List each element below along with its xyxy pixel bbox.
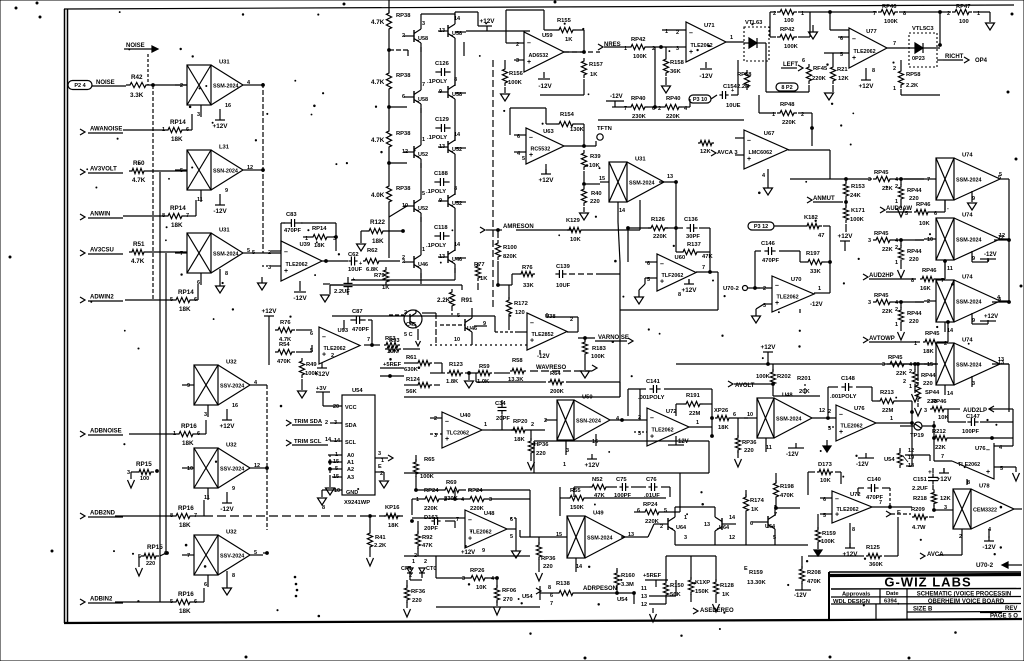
svg-text:22K: 22K bbox=[896, 371, 907, 377]
svg-text:R213: R213 bbox=[880, 390, 895, 396]
svg-text:2: 2 bbox=[927, 299, 930, 305]
svg-text:+12V: +12V bbox=[539, 177, 555, 184]
svg-text:A3: A3 bbox=[347, 475, 354, 481]
svg-text:NOISE: NOISE bbox=[96, 80, 115, 86]
svg-text:R197: R197 bbox=[806, 251, 820, 257]
svg-text:VTL63: VTL63 bbox=[745, 20, 763, 26]
svg-text:U32: U32 bbox=[226, 360, 237, 366]
svg-text:11: 11 bbox=[947, 266, 953, 272]
svg-text:U76: U76 bbox=[854, 406, 865, 412]
svg-text:U70-2: U70-2 bbox=[976, 562, 994, 569]
svg-text:3.3M: 3.3M bbox=[621, 582, 634, 588]
svg-text:R122: R122 bbox=[370, 219, 386, 226]
svg-text:2: 2 bbox=[660, 524, 663, 530]
svg-text:R91: R91 bbox=[461, 297, 473, 304]
svg-text:-12V: -12V bbox=[699, 73, 713, 80]
svg-text:X9241WP: X9241WP bbox=[344, 500, 370, 506]
svg-text:RP16: RP16 bbox=[181, 423, 197, 430]
svg-text:8: 8 bbox=[232, 573, 235, 579]
svg-text:SSM-2024: SSM-2024 bbox=[956, 300, 981, 306]
svg-text:22K: 22K bbox=[882, 309, 893, 315]
svg-text:1: 1 bbox=[422, 247, 425, 253]
svg-text:3: 3 bbox=[204, 412, 207, 418]
svg-text:C141: C141 bbox=[646, 379, 661, 385]
svg-text:R159: R159 bbox=[749, 570, 764, 576]
svg-text:RF36: RF36 bbox=[411, 589, 426, 595]
svg-text:RP14: RP14 bbox=[170, 119, 186, 126]
svg-text:A1: A1 bbox=[347, 460, 354, 466]
svg-text:SSV-2024: SSV-2024 bbox=[220, 554, 244, 560]
svg-text:7: 7 bbox=[367, 337, 370, 343]
svg-text:VTL5C3: VTL5C3 bbox=[912, 26, 934, 32]
svg-text:OBERHEIM VOICE BOARD: OBERHEIM VOICE BOARD bbox=[928, 599, 1005, 605]
svg-text:220K: 220K bbox=[653, 234, 668, 240]
svg-text:47K: 47K bbox=[702, 254, 713, 260]
svg-text:RICHT: RICHT bbox=[945, 54, 964, 60]
svg-text:12K: 12K bbox=[940, 496, 951, 502]
svg-text:10K: 10K bbox=[820, 478, 831, 484]
svg-text:AMRESON: AMRESON bbox=[503, 224, 534, 230]
svg-text:U74: U74 bbox=[962, 153, 973, 159]
svg-text:RP45: RP45 bbox=[874, 293, 889, 299]
svg-text:D173: D173 bbox=[818, 462, 833, 468]
svg-text:2: 2 bbox=[763, 286, 766, 292]
svg-text:RP45: RP45 bbox=[888, 355, 903, 361]
svg-text:2: 2 bbox=[544, 418, 547, 424]
svg-text:+: + bbox=[731, 88, 734, 94]
svg-text:820K: 820K bbox=[503, 254, 518, 260]
svg-text:2: 2 bbox=[434, 416, 437, 422]
svg-text:RP24: RP24 bbox=[643, 502, 658, 508]
svg-text:U46: U46 bbox=[467, 326, 477, 332]
svg-text:+: + bbox=[747, 156, 751, 163]
svg-text:–: – bbox=[284, 249, 288, 256]
svg-text:220: 220 bbox=[412, 598, 422, 604]
svg-text:RP36: RP36 bbox=[541, 556, 556, 562]
svg-text:100K: 100K bbox=[821, 539, 836, 545]
svg-text:16: 16 bbox=[232, 403, 238, 409]
svg-text:.1POLY: .1POLY bbox=[426, 243, 446, 249]
svg-text:U63: U63 bbox=[543, 129, 554, 135]
svg-text:U54: U54 bbox=[522, 594, 533, 600]
svg-text:RP14: RP14 bbox=[178, 289, 194, 296]
svg-text:4.7K: 4.7K bbox=[371, 79, 385, 86]
svg-text:RP48: RP48 bbox=[780, 102, 795, 108]
svg-text:+: + bbox=[284, 268, 288, 275]
svg-text:18K: 18K bbox=[314, 243, 325, 249]
svg-text:16K: 16K bbox=[920, 286, 931, 292]
svg-text:10K: 10K bbox=[387, 349, 398, 355]
svg-text:GND: GND bbox=[346, 490, 358, 496]
svg-text:100: 100 bbox=[140, 476, 149, 482]
svg-text:–: – bbox=[852, 36, 856, 43]
svg-text:+: + bbox=[322, 352, 326, 359]
svg-text:ANWIN: ANWIN bbox=[90, 212, 110, 218]
svg-text:220K: 220K bbox=[666, 114, 681, 120]
svg-text:RP15: RP15 bbox=[147, 544, 163, 551]
svg-text:12K: 12K bbox=[700, 149, 711, 155]
svg-text:VARNOISE: VARNOISE bbox=[598, 335, 629, 341]
svg-text:20PF: 20PF bbox=[496, 416, 510, 422]
svg-text:5: 5 bbox=[252, 250, 255, 256]
svg-text:1: 1 bbox=[563, 462, 566, 468]
svg-text:6: 6 bbox=[802, 58, 805, 64]
svg-text:RP44: RP44 bbox=[907, 249, 922, 255]
svg-text:TRIM SCL: TRIM SCL bbox=[294, 439, 322, 445]
svg-text:U31: U31 bbox=[219, 228, 230, 234]
svg-text:RP46: RP46 bbox=[932, 399, 947, 405]
svg-text:RP45: RP45 bbox=[925, 331, 940, 337]
svg-text:-12V: -12V bbox=[794, 593, 807, 599]
svg-text:RP24: RP24 bbox=[424, 488, 439, 494]
svg-text:2: 2 bbox=[180, 83, 183, 89]
svg-text:10UF: 10UF bbox=[348, 267, 363, 273]
svg-text:R191: R191 bbox=[686, 393, 701, 399]
svg-text:R39: R39 bbox=[590, 154, 601, 160]
svg-text:100K: 100K bbox=[884, 19, 899, 25]
svg-text:7: 7 bbox=[879, 500, 882, 506]
svg-text:+12V: +12V bbox=[984, 314, 998, 320]
svg-text:C188: C188 bbox=[434, 171, 449, 177]
svg-text:RP40: RP40 bbox=[666, 96, 681, 102]
svg-text:–: – bbox=[468, 517, 472, 524]
svg-text:OP4: OP4 bbox=[975, 58, 988, 64]
svg-text:C76: C76 bbox=[646, 477, 657, 483]
svg-text:U54: U54 bbox=[352, 388, 363, 394]
svg-text:+12V: +12V bbox=[213, 123, 229, 130]
svg-text:U67: U67 bbox=[764, 131, 775, 137]
svg-text:6: 6 bbox=[637, 508, 640, 514]
svg-text:+: + bbox=[928, 469, 932, 476]
svg-text:3: 3 bbox=[127, 470, 130, 476]
svg-text:10UE: 10UE bbox=[726, 103, 741, 109]
svg-text:–: – bbox=[322, 334, 326, 341]
svg-text:C146: C146 bbox=[761, 241, 776, 247]
svg-text:R209: R209 bbox=[911, 507, 926, 513]
svg-text:SSM-2024: SSM-2024 bbox=[213, 252, 238, 258]
svg-text:2: 2 bbox=[444, 497, 447, 503]
svg-text:20PF: 20PF bbox=[424, 526, 438, 532]
svg-text:1: 1 bbox=[412, 559, 415, 565]
svg-text:TLC2062: TLC2062 bbox=[447, 430, 469, 436]
svg-text:18K: 18K bbox=[372, 238, 384, 245]
svg-text:2: 2 bbox=[404, 310, 407, 316]
svg-text:U58: U58 bbox=[418, 97, 428, 103]
svg-text:470PF: 470PF bbox=[762, 258, 780, 264]
svg-text:9: 9 bbox=[232, 486, 235, 492]
svg-text:U46: U46 bbox=[418, 262, 428, 268]
svg-text:1: 1 bbox=[818, 286, 821, 292]
svg-text:AUD2HP: AUD2HP bbox=[869, 273, 894, 279]
svg-text:220: 220 bbox=[590, 199, 600, 205]
svg-text:R51: R51 bbox=[133, 241, 145, 248]
svg-text:U31: U31 bbox=[635, 157, 646, 163]
svg-text:7: 7 bbox=[702, 265, 705, 271]
svg-text:R138: R138 bbox=[556, 581, 571, 587]
svg-text:R156: R156 bbox=[509, 71, 524, 77]
svg-text:C62: C62 bbox=[348, 252, 359, 258]
svg-text:6394: 6394 bbox=[884, 599, 898, 605]
svg-text:U32: U32 bbox=[226, 530, 237, 536]
svg-text:220: 220 bbox=[744, 448, 754, 454]
svg-text:U60: U60 bbox=[675, 255, 686, 261]
svg-text:G-WIZ LABS: G-WIZ LABS bbox=[884, 575, 971, 590]
svg-text:1: 1 bbox=[895, 199, 898, 205]
svg-text:220: 220 bbox=[909, 319, 919, 325]
svg-text:24K: 24K bbox=[850, 193, 861, 199]
svg-text:RP46: RP46 bbox=[882, 4, 897, 10]
svg-text:U54: U54 bbox=[884, 457, 895, 463]
svg-text:TLE2852: TLE2852 bbox=[532, 332, 554, 338]
svg-text:11: 11 bbox=[197, 197, 203, 203]
svg-text:100K: 100K bbox=[850, 217, 865, 223]
svg-text:XP26: XP26 bbox=[714, 408, 729, 414]
svg-text:SCHEMATIC (VOICE PROCESSIN: SCHEMATIC (VOICE PROCESSIN bbox=[917, 592, 1012, 598]
svg-text:R69: R69 bbox=[446, 480, 457, 486]
svg-text:-12V: -12V bbox=[984, 252, 997, 258]
svg-text:U54: U54 bbox=[617, 597, 628, 603]
svg-text:–: – bbox=[986, 447, 990, 454]
svg-text:220K: 220K bbox=[470, 506, 485, 512]
svg-text:R76: R76 bbox=[522, 265, 533, 271]
svg-text:TLE2062: TLE2062 bbox=[777, 294, 799, 300]
svg-text:33K: 33K bbox=[523, 283, 534, 289]
svg-text:U76: U76 bbox=[975, 446, 986, 452]
svg-text:1: 1 bbox=[895, 322, 898, 328]
svg-text:CT0: CT0 bbox=[426, 566, 436, 572]
svg-text:7: 7 bbox=[187, 553, 190, 559]
svg-text:2: 2 bbox=[331, 353, 334, 359]
svg-text:AVCA 3: AVCA 3 bbox=[717, 150, 738, 156]
svg-text:1: 1 bbox=[909, 384, 912, 390]
svg-text:SSM-2024: SSM-2024 bbox=[213, 84, 238, 90]
svg-text:1: 1 bbox=[416, 497, 419, 503]
svg-text:R208: R208 bbox=[807, 570, 822, 576]
svg-text:3: 3 bbox=[378, 451, 381, 457]
svg-text:RP46: RP46 bbox=[916, 202, 931, 208]
svg-text:+: + bbox=[650, 433, 654, 440]
svg-text:100K: 100K bbox=[756, 374, 771, 380]
svg-text:5: 5 bbox=[905, 211, 908, 217]
svg-text:4.0K: 4.0K bbox=[371, 192, 385, 199]
svg-text:3: 3 bbox=[882, 362, 885, 368]
svg-text:10: 10 bbox=[747, 412, 753, 418]
svg-text:+12V: +12V bbox=[843, 551, 859, 558]
svg-text:P3 10: P3 10 bbox=[693, 97, 707, 103]
svg-text:13: 13 bbox=[667, 174, 673, 180]
svg-text:RP44: RP44 bbox=[907, 311, 922, 317]
svg-text:2.2K: 2.2K bbox=[374, 543, 387, 549]
svg-text:47K: 47K bbox=[422, 543, 433, 549]
svg-text:RP46: RP46 bbox=[922, 268, 937, 274]
svg-text:18K: 18K bbox=[179, 522, 191, 529]
svg-text:2.2K: 2.2K bbox=[906, 83, 919, 89]
svg-text:10: 10 bbox=[927, 237, 933, 243]
svg-text:-12V: -12V bbox=[537, 354, 550, 360]
svg-text:14: 14 bbox=[325, 437, 332, 443]
svg-text:U93: U93 bbox=[337, 328, 348, 334]
svg-text:SSN-2024: SSN-2024 bbox=[576, 419, 601, 425]
svg-text:R59: R59 bbox=[479, 364, 490, 370]
svg-text:SP44: SP44 bbox=[925, 390, 940, 396]
svg-text:1: 1 bbox=[893, 86, 896, 92]
svg-text:U40: U40 bbox=[460, 413, 471, 419]
svg-text:100K: 100K bbox=[508, 80, 523, 86]
svg-text:3.3K: 3.3K bbox=[130, 92, 144, 99]
svg-text:R123: R123 bbox=[449, 362, 464, 368]
svg-text:Date: Date bbox=[886, 591, 899, 597]
svg-text:+12V: +12V bbox=[220, 423, 236, 430]
svg-text:220: 220 bbox=[909, 257, 919, 263]
svg-text:R198: R198 bbox=[780, 484, 795, 490]
svg-text:1: 1 bbox=[422, 137, 425, 143]
svg-text:RP20: RP20 bbox=[513, 419, 528, 425]
svg-text:+: + bbox=[529, 152, 533, 159]
svg-text:SSN-2024: SSN-2024 bbox=[213, 169, 238, 175]
svg-text:RP58: RP58 bbox=[737, 72, 752, 78]
svg-text:+5REF: +5REF bbox=[643, 573, 662, 579]
svg-text:RP14: RP14 bbox=[170, 205, 186, 212]
svg-text:22M: 22M bbox=[689, 411, 700, 417]
svg-text:E: E bbox=[897, 510, 901, 516]
svg-text:1: 1 bbox=[730, 35, 733, 41]
svg-text:RP45: RP45 bbox=[874, 170, 889, 176]
svg-text:ADB2ND: ADB2ND bbox=[90, 511, 116, 517]
svg-text:+: + bbox=[352, 277, 355, 283]
svg-text:100K: 100K bbox=[784, 44, 799, 50]
svg-text:4.7K: 4.7K bbox=[131, 258, 145, 265]
svg-text:R183: R183 bbox=[592, 346, 607, 352]
svg-text:U50: U50 bbox=[582, 395, 593, 401]
svg-text:10: 10 bbox=[454, 337, 460, 343]
svg-text:R174: R174 bbox=[750, 498, 765, 504]
svg-text:-12V: -12V bbox=[676, 439, 689, 445]
svg-text:2: 2 bbox=[268, 250, 271, 256]
svg-text:14: 14 bbox=[729, 515, 736, 521]
svg-text:–: – bbox=[835, 496, 839, 503]
svg-text:TLE2062: TLE2062 bbox=[324, 346, 346, 352]
svg-text:2: 2 bbox=[903, 379, 906, 385]
svg-text:+: + bbox=[852, 55, 856, 62]
svg-text:360K: 360K bbox=[869, 562, 884, 568]
svg-text:2: 2 bbox=[893, 66, 896, 72]
svg-text:–: – bbox=[650, 415, 654, 422]
svg-text:RP38: RP38 bbox=[396, 186, 411, 192]
svg-text:ADBIN2: ADBIN2 bbox=[90, 597, 113, 603]
svg-text:100: 100 bbox=[959, 19, 969, 25]
svg-text:+: + bbox=[359, 261, 362, 267]
svg-text:TLE2062: TLE2062 bbox=[470, 530, 492, 536]
svg-text:–: – bbox=[530, 320, 534, 327]
svg-text:10K: 10K bbox=[570, 237, 581, 243]
svg-text:8: 8 bbox=[548, 585, 551, 591]
svg-text:.1POLY: .1POLY bbox=[427, 79, 447, 85]
svg-text:-12V: -12V bbox=[538, 83, 552, 90]
svg-text:13: 13 bbox=[704, 522, 710, 528]
svg-text:13: 13 bbox=[641, 594, 647, 600]
svg-text:18K: 18K bbox=[171, 222, 183, 229]
svg-text:TLE2062: TLE2062 bbox=[691, 43, 713, 49]
svg-text:C140: C140 bbox=[867, 477, 881, 483]
svg-text:R154: R154 bbox=[560, 112, 575, 118]
svg-text:R61: R61 bbox=[406, 355, 417, 361]
svg-text:RP16: RP16 bbox=[178, 505, 194, 512]
svg-text:12K: 12K bbox=[838, 76, 849, 82]
svg-text:P3 12: P3 12 bbox=[754, 224, 768, 230]
svg-text:11: 11 bbox=[766, 445, 772, 451]
svg-text:220: 220 bbox=[146, 561, 155, 567]
svg-text:3: 3 bbox=[422, 21, 425, 27]
svg-text:100PF: 100PF bbox=[962, 429, 980, 435]
svg-text:LMC6062: LMC6062 bbox=[749, 150, 773, 156]
svg-text:150K: 150K bbox=[695, 589, 710, 595]
svg-text:C87: C87 bbox=[352, 309, 363, 315]
svg-text:R54: R54 bbox=[279, 342, 290, 348]
svg-text:10: 10 bbox=[187, 466, 193, 472]
svg-text:7: 7 bbox=[180, 251, 183, 257]
svg-text:10K: 10K bbox=[919, 221, 930, 227]
svg-text:RP24: RP24 bbox=[468, 488, 483, 494]
svg-text:R76: R76 bbox=[280, 320, 291, 326]
svg-text:14: 14 bbox=[576, 564, 583, 570]
svg-text:3: 3 bbox=[684, 535, 687, 541]
svg-text:–: – bbox=[689, 30, 693, 37]
svg-text:8: 8 bbox=[872, 68, 875, 74]
svg-text:22M: 22M bbox=[882, 408, 893, 414]
svg-text:1K: 1K bbox=[382, 285, 390, 291]
svg-text:L31: L31 bbox=[219, 145, 230, 151]
svg-text:U78: U78 bbox=[979, 484, 990, 490]
svg-text:470PF: 470PF bbox=[352, 327, 370, 333]
svg-text:R21: R21 bbox=[837, 67, 848, 73]
svg-text:SSM-2024: SSM-2024 bbox=[956, 178, 981, 184]
svg-text:SSM-2024: SSM-2024 bbox=[587, 536, 612, 542]
svg-text:R79: R79 bbox=[374, 273, 385, 279]
svg-text:2: 2 bbox=[325, 420, 328, 426]
svg-text:630K: 630K bbox=[404, 367, 419, 373]
svg-text:6: 6 bbox=[550, 593, 553, 599]
svg-text:100K: 100K bbox=[420, 474, 435, 480]
svg-text:SSM-2024: SSM-2024 bbox=[956, 238, 981, 244]
svg-text:U64: U64 bbox=[719, 525, 730, 531]
svg-text:+: + bbox=[986, 469, 990, 476]
svg-text:RP14: RP14 bbox=[312, 226, 327, 232]
svg-text:33K: 33K bbox=[810, 269, 821, 275]
svg-text:5: 5 bbox=[510, 534, 513, 540]
svg-text:-12V: -12V bbox=[610, 94, 623, 100]
svg-text:150K: 150K bbox=[570, 505, 585, 511]
svg-text:R65: R65 bbox=[424, 457, 435, 463]
svg-text:270: 270 bbox=[503, 597, 513, 603]
svg-text:RP16: RP16 bbox=[178, 591, 194, 598]
svg-text:2: 2 bbox=[909, 369, 912, 375]
svg-text:220K: 220K bbox=[782, 120, 797, 126]
svg-text:RP44: RP44 bbox=[907, 188, 922, 194]
svg-text:0P23: 0P23 bbox=[912, 56, 925, 62]
svg-text:U52: U52 bbox=[418, 152, 428, 158]
svg-text:RP40: RP40 bbox=[631, 96, 646, 102]
svg-text:12: 12 bbox=[641, 602, 647, 608]
svg-text:R42: R42 bbox=[131, 74, 143, 81]
svg-text:P2 4: P2 4 bbox=[74, 83, 86, 89]
svg-text:3: 3 bbox=[197, 112, 200, 118]
svg-text:+12V: +12V bbox=[859, 83, 875, 90]
svg-text:RP26: RP26 bbox=[470, 568, 485, 574]
svg-text:1: 1 bbox=[684, 515, 687, 521]
svg-text:RP38: RP38 bbox=[396, 131, 411, 137]
svg-text:2: 2 bbox=[828, 409, 831, 415]
svg-text:100: 100 bbox=[784, 18, 794, 24]
